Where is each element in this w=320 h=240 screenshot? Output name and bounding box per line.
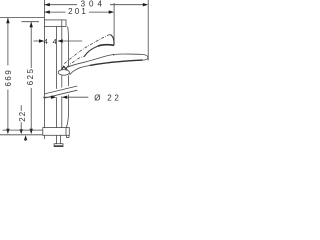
top bracket [44, 20, 66, 27]
dimension 625 [26, 22, 35, 134]
hand shower bottom edge thick [90, 60, 143, 65]
holder ellipse [58, 70, 69, 76]
rail right line [61, 26, 63, 127]
extension line 201 right [113, 3, 115, 45]
svg-text:Ø: Ø [94, 93, 100, 102]
reference line block mid [3, 129, 43, 131]
dimension 669 [4, 18, 13, 134]
reference line floor [0, 134, 44, 136]
svg-text:625: 625 [26, 67, 35, 85]
break lines with halo [44, 86, 77, 98]
dimension diameter 22 [43, 93, 122, 102]
top reference line 669 [0, 17, 44, 19]
svg-text:669: 669 [4, 69, 13, 87]
svg-text:44: 44 [44, 37, 62, 46]
rail left line [55, 26, 57, 127]
foot [54, 144, 63, 147]
dimension 201 [44, 7, 114, 16]
hose end below block [66, 135, 69, 137]
svg-text:22: 22 [18, 111, 27, 122]
dimension 22 bottom [18, 105, 27, 141]
hand shower body [66, 54, 148, 74]
svg-text:22: 22 [107, 93, 121, 102]
phantom head lower edge (solid thick) [98, 45, 114, 46]
rail stub bottom [56, 135, 58, 143]
dimension 304 [44, 0, 148, 8]
hand shower joint nick [112, 54, 115, 56]
rail track line [66, 27, 68, 128]
wall line [43, 0, 45, 139]
phantom head cap (solid) [110, 35, 114, 46]
bottom block [43, 128, 70, 136]
holder clamp [62, 66, 67, 69]
extension line 304 right [147, 0, 149, 60]
dimension 44 [34, 37, 83, 46]
phantom shower handle upper edge (dash-dot) [64, 34, 110, 67]
svg-text:201: 201 [68, 7, 88, 16]
top reference line 625 [22, 21, 40, 23]
